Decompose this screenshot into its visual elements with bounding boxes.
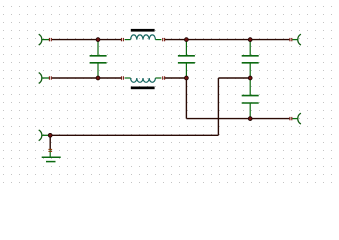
port P4 (neutral output, right bottom) bbox=[290, 113, 301, 124]
port P3 (line output, right top) bbox=[290, 34, 301, 45]
junction on rail1 at C3 bbox=[248, 38, 252, 42]
capacitor C3 (Y-cap upper) bbox=[242, 41, 259, 78]
inductor L1 (choke winding, top) bbox=[122, 29, 165, 41]
port P1 (line input, left top) bbox=[39, 34, 52, 45]
grid dots background bbox=[0, 0, 339, 186]
capacitor C2 (X-cap output, between rails) bbox=[178, 41, 195, 78]
wire rail1 right segment bbox=[165, 39, 289, 41]
junction on rail1 at C1 bbox=[96, 38, 100, 42]
wire neutral bottom horizontal to output bbox=[186, 118, 289, 120]
wire rail2 left segment bbox=[52, 77, 121, 79]
wire earth horizontal bbox=[50, 134, 218, 136]
wire neutral dropper from rail2 end bbox=[185, 78, 187, 119]
capacitor C1 (X-cap input, between rails) bbox=[90, 41, 107, 78]
wire earth riser bbox=[217, 78, 219, 135]
junction on rail2 at C2 / dropper bbox=[185, 76, 189, 80]
junction on rail1 at C2 bbox=[185, 38, 189, 42]
capacitor C4 (Y-cap lower) bbox=[242, 78, 259, 119]
port P5 (earth, left bottom) bbox=[39, 130, 51, 141]
junction at Y-cap midpoint bbox=[248, 76, 252, 80]
junction at earth port bbox=[48, 133, 52, 137]
wire rail2 right segment bbox=[165, 77, 186, 79]
port P2 (neutral input, left mid) bbox=[39, 73, 52, 84]
wire rail1 left segment bbox=[52, 39, 121, 41]
wire earth stub to Y-cap midpoint bbox=[218, 77, 250, 79]
ground GND symbol bbox=[42, 135, 61, 161]
inductor L2 (choke winding, bottom, mirrored) bbox=[122, 76, 165, 89]
junction on rail2 at C1 bbox=[96, 76, 100, 80]
junction at Y-cap bottom on neutral bbox=[248, 117, 252, 121]
